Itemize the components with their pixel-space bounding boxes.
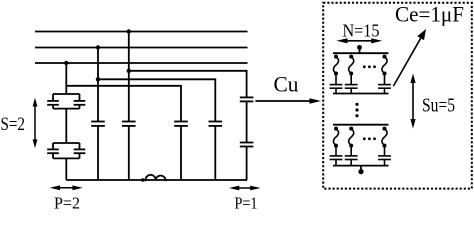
unit U1 branch 2 (fuse + capacitor) xyxy=(345,55,358,94)
capacitor C5 (right column upper) xyxy=(240,97,254,142)
arrow Cu xyxy=(255,98,321,104)
svg-text:S=2: S=2 xyxy=(1,114,26,135)
capacitor C1 xyxy=(91,122,105,181)
unit U2 bottom bar xyxy=(333,166,389,171)
svg-text:Cu: Cu xyxy=(274,72,299,97)
capacitor C2 xyxy=(122,122,136,181)
arrow Su dimension xyxy=(410,74,415,129)
svg-text:P=2: P=2 xyxy=(54,194,80,210)
unit U1 top bar xyxy=(333,47,389,53)
wire tap from L1 xyxy=(128,32,130,122)
bus line L3 xyxy=(35,62,248,64)
junction dot on L2 xyxy=(96,45,100,49)
junction dot L4 xyxy=(127,69,131,73)
arrow P=2 dimension xyxy=(50,185,83,190)
capacitor C3 xyxy=(174,122,188,181)
arrow P=1 dimension xyxy=(229,186,261,191)
svg-text:Su=5: Su=5 xyxy=(422,95,455,117)
junction dot on bottom wire xyxy=(141,178,145,182)
svg-text:N=15: N=15 xyxy=(343,21,380,41)
unit U1 ellipsis xyxy=(363,65,376,68)
wire tap from L2 xyxy=(97,48,99,122)
arrow N dimension xyxy=(336,38,382,43)
wire branch to C3 column xyxy=(66,86,181,122)
arrow to Ce xyxy=(393,29,426,86)
bus line L1 xyxy=(35,31,248,33)
capacitor C6 (right column lower) xyxy=(240,143,254,181)
unit U1 bottom bar xyxy=(333,93,389,95)
svg-text:P=1: P=1 xyxy=(235,194,258,210)
dashed enclosure box xyxy=(323,3,472,189)
junction dot on L3 xyxy=(64,61,68,65)
junction dot on L1 xyxy=(127,29,131,33)
unit U2 terminal dot xyxy=(358,169,363,174)
junction dot L5 xyxy=(96,77,100,81)
unit U2 branch 1 (fuse + capacitor) xyxy=(330,127,343,166)
unit U1 branch N (fuse + capacitor) xyxy=(378,55,391,94)
unit U2 top bar xyxy=(333,124,389,126)
unit U2 branch 2 (fuse + capacitor) xyxy=(345,127,358,166)
wire branch L4 to right column xyxy=(129,71,247,97)
inductor xyxy=(146,175,166,181)
wire branch L5 to C4 column xyxy=(98,79,215,121)
unit U2 branch N (fuse + capacitor) xyxy=(378,127,391,166)
svg-text:Ce=1μF: Ce=1μF xyxy=(395,2,464,27)
unit U1 terminal dot xyxy=(357,45,362,50)
capacitor C4 xyxy=(209,122,223,181)
bottom wire xyxy=(66,179,247,181)
capacitor group G1 (S=2 P=2 upper) xyxy=(47,94,85,143)
arrow S dimension xyxy=(33,98,38,149)
series continuation dots xyxy=(355,103,358,118)
wire tap from L3 xyxy=(65,63,67,94)
bus line L2 xyxy=(35,47,248,49)
unit U1 branch 1 (fuse + capacitor) xyxy=(330,55,343,94)
unit U2 ellipsis xyxy=(363,137,376,140)
capacitor group G2 (S=2 P=2 lower) xyxy=(47,143,85,180)
